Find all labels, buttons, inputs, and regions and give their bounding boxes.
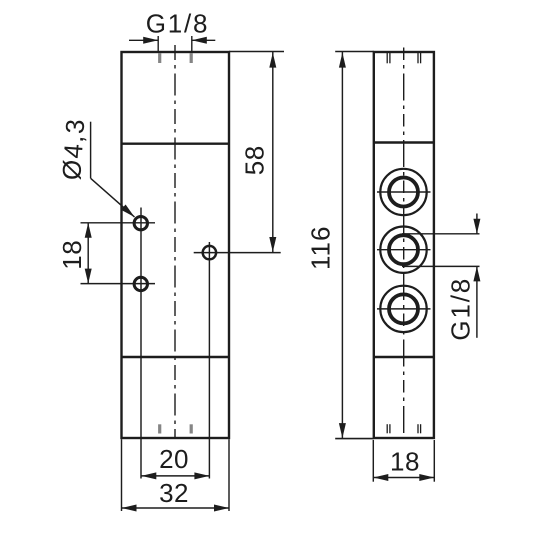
svg-text:Ø4,3: Ø4,3: [56, 117, 90, 181]
svg-text:58: 58: [240, 145, 270, 175]
svg-text:G1/8: G1/8: [146, 9, 210, 39]
svg-text:20: 20: [159, 444, 189, 474]
svg-text:18: 18: [57, 240, 87, 270]
svg-text:18: 18: [390, 446, 420, 476]
svg-text:32: 32: [159, 478, 189, 508]
svg-text:116: 116: [306, 226, 336, 270]
svg-text:G1/8: G1/8: [445, 277, 475, 341]
